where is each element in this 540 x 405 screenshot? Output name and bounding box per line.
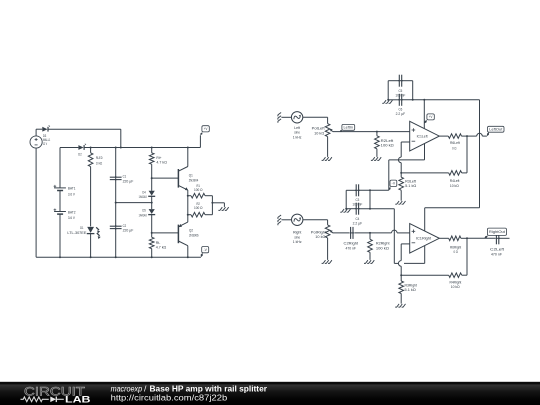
LED D1 LTL-307EE xyxy=(67,225,100,239)
resistor R4Right 10 kOhm (feedback) xyxy=(401,273,467,289)
node row B / riser xyxy=(369,208,371,210)
wire R1/R2 right join xyxy=(211,196,213,215)
svg-text:1 kHz: 1 kHz xyxy=(293,239,302,244)
diode D2 xyxy=(78,144,86,157)
svg-text:D2: D2 xyxy=(78,152,82,157)
diode D5 1N4148 xyxy=(139,208,156,218)
wire C5 loop right xyxy=(402,80,413,82)
node bottom C2 xyxy=(115,256,117,258)
node junction top-rail / +V rail xyxy=(120,147,122,149)
CircuitLab logo diode symbol xyxy=(50,397,56,403)
wire -V branch down (hops + input wire) xyxy=(393,209,395,264)
transistor Q1 2N3904 NPN xyxy=(178,148,198,196)
potentiometer PotLeft 10 kOhm xyxy=(312,124,334,157)
svg-text:3.6 V: 3.6 V xyxy=(68,215,75,220)
net flag LeftOut xyxy=(487,126,504,136)
svg-text:1N4148: 1N4148 xyxy=(139,212,147,217)
voltage source Right sine 1 kHz xyxy=(292,214,303,244)
wire +V rail to C1 xyxy=(115,148,117,178)
svg-text:10 kΩ: 10 kΩ xyxy=(450,183,459,188)
diode D4 1N4148 xyxy=(139,189,156,199)
wire PotLeft wiper to op-amp + input xyxy=(333,131,410,133)
node Q1 collector xyxy=(187,147,189,149)
ground (supply decoupling) xyxy=(382,100,392,103)
svg-text:220 µF: 220 µF xyxy=(123,178,134,183)
capacitor C6 2.2 uF (supply decoupling) xyxy=(396,94,406,116)
ground (C3/C4 decoupling) xyxy=(340,209,350,212)
wire riser row A to row B xyxy=(369,190,371,208)
battery BAT2 3.6 V xyxy=(54,209,76,221)
CircuitLab logo resistor symbol xyxy=(21,397,49,402)
wire IC1Left V- pin xyxy=(424,143,426,160)
wire RLED to D1 xyxy=(90,167,92,227)
svg-text:10 kΩ: 10 kΩ xyxy=(451,284,460,289)
svg-text:1 kHz: 1 kHz xyxy=(293,134,302,139)
net flag +V (rail splitter) xyxy=(200,126,209,136)
svg-text:0 Ω: 0 Ω xyxy=(452,145,456,150)
resistor R6Right 0 Ohm (output) xyxy=(439,236,467,254)
svg-text:100 Ω: 100 Ω xyxy=(194,187,203,192)
svg-text:100 kΩ: 100 kΩ xyxy=(381,142,394,147)
svg-text:BAT2: BAT2 xyxy=(68,209,76,214)
resistor R4Left 10 kOhm (feedback) xyxy=(401,171,467,188)
resistor R6Left 0 Ohm (output) xyxy=(439,134,467,151)
capacitor C5 100 nF (supply decoupling) xyxy=(395,75,405,98)
wire Q2 base xyxy=(152,232,179,234)
capacitor C1 220 uF xyxy=(110,174,134,184)
resistor R3Left 5.1 kOhm xyxy=(399,173,417,201)
svg-text:3.6 V: 3.6 V xyxy=(68,192,75,197)
capacitor C2Right 470 nF (input coupling) xyxy=(344,227,359,251)
wire V- down to -V flag corner xyxy=(388,160,390,190)
diode D3 xyxy=(42,125,50,138)
svg-text:220 µF: 220 µF xyxy=(123,228,134,233)
wire +V rail left segment xyxy=(388,99,399,101)
op-amp IC1Left xyxy=(410,121,440,151)
wire C2 to bottom rail xyxy=(115,229,117,257)
svg-text:10 kΩ: 10 kΩ xyxy=(96,160,102,165)
wire row B right xyxy=(359,208,395,210)
wire row A right to -V corner xyxy=(359,189,389,191)
svg-text:RLED: RLED xyxy=(96,155,103,160)
node feedback IC1Right xyxy=(400,274,402,276)
wire IC1Right V- pin xyxy=(424,246,426,264)
node +V rail / C5 right xyxy=(412,99,414,101)
net flag RightOut xyxy=(484,228,506,238)
svg-text:100 kΩ: 100 kΩ xyxy=(376,246,389,251)
node Rt+/D4/Q1 base xyxy=(151,177,153,179)
node bottom Rt- xyxy=(151,256,153,258)
voltage source Left sine 1 kHz xyxy=(291,112,302,140)
wire C2Left output stub xyxy=(499,237,510,239)
svg-text:2N3904: 2N3904 xyxy=(189,178,199,183)
node bottom Q2 xyxy=(187,256,189,258)
svg-text:D3: D3 xyxy=(43,133,47,138)
wire mid rail to C2 xyxy=(115,203,117,226)
wire +V rail to BAT1 xyxy=(59,148,61,188)
potentiometer PotRight 10 kOhm xyxy=(311,225,333,260)
svg-text:+V: +V xyxy=(204,127,208,131)
wire +V rail battery to D2 xyxy=(60,147,78,149)
svg-text:BAT1: BAT1 xyxy=(68,186,76,191)
node ground decoupling xyxy=(345,208,347,210)
svg-text:5.1 kΩ: 5.1 kΩ xyxy=(405,287,416,292)
wire mid rail (virtual ground) xyxy=(116,202,152,204)
svg-text:10 kΩ: 10 kΩ xyxy=(314,130,324,135)
node row A / riser xyxy=(369,189,371,191)
wire top rail D3 to corner xyxy=(48,128,120,130)
wire node to D4 xyxy=(151,178,153,191)
svg-text:100 nF: 100 nF xyxy=(395,93,405,98)
svg-text:0 Ω: 0 Ω xyxy=(453,249,457,254)
ground (R3Left) xyxy=(395,201,405,204)
node C1/C2 mid xyxy=(115,202,117,204)
wire IC1Left V+ pin xyxy=(423,100,425,129)
node RightOut xyxy=(466,237,468,239)
svg-text:100 nF: 100 nF xyxy=(352,202,362,207)
wire to chassis ground xyxy=(212,202,224,204)
wire output to C2Left xyxy=(467,237,495,239)
wire R4Right up to output xyxy=(466,238,468,275)
capacitor C2 220 uF xyxy=(110,223,134,233)
svg-text:2.2 µF: 2.2 µF xyxy=(353,220,363,225)
node R2 left xyxy=(187,214,189,216)
wire ground to Left source xyxy=(281,116,291,118)
wire BAT1 to BAT2 xyxy=(59,191,61,212)
wire R4Left up to output xyxy=(466,136,468,173)
capacitor C3 100 nF xyxy=(352,184,362,206)
wire D4 to mid rail xyxy=(151,197,153,203)
voltage source WALL1 12 V xyxy=(30,136,51,148)
wire WALL1 bottom to bottom rail xyxy=(35,148,37,257)
node R2Left top xyxy=(376,131,378,133)
svg-text:IC1Right: IC1Right xyxy=(416,236,432,241)
wire Left source to PotLeft xyxy=(303,116,328,118)
capacitor C2Left 470 nF (output coupling) xyxy=(490,232,505,256)
op-amp IC1Right xyxy=(410,224,440,254)
wire Q1 base xyxy=(152,177,179,179)
ground (Right source) xyxy=(278,215,281,225)
svg-text:10 kΩ: 10 kΩ xyxy=(315,234,325,239)
ground (Left source) xyxy=(278,113,281,123)
wire C1 to mid rail xyxy=(115,180,117,202)
wire - input down to feedback node (hops -V wire) xyxy=(400,244,402,261)
svg-text:2.2 µF: 2.2 µF xyxy=(396,111,406,116)
wire V- run left xyxy=(389,159,425,161)
wire top rail from WALL1 to D3 xyxy=(36,128,42,130)
wire row A left xyxy=(346,189,356,191)
svg-text:4.7 kΩ: 4.7 kΩ xyxy=(156,159,167,164)
wire D1 to bottom rail xyxy=(90,234,92,258)
node output to ground xyxy=(211,202,213,204)
ground (R3Right) xyxy=(395,304,405,307)
wire D5 to Rt- node xyxy=(151,215,153,233)
node LeftOut xyxy=(466,135,468,137)
resistor RLED 10 kOhm xyxy=(88,148,102,167)
node +V rail / C5 left / ground xyxy=(387,99,389,101)
node Q1 emitter / R1 xyxy=(187,195,189,197)
svg-text:470 nF: 470 nF xyxy=(491,251,503,256)
svg-text:RightOut: RightOut xyxy=(489,230,505,234)
wire riser to +V flag xyxy=(199,135,201,147)
node +V rail / IC1Left V+ xyxy=(423,99,425,101)
resistor R1 100 Ohm xyxy=(188,183,213,198)
ground (R2Left) xyxy=(371,157,381,160)
svg-text:5.1 kΩ: 5.1 kΩ xyxy=(405,183,416,188)
wire row A left corner down xyxy=(345,190,347,208)
ground (R2Right) xyxy=(364,260,374,263)
transistor Q2 2N3906 PNP xyxy=(178,215,199,258)
node bottom D1 xyxy=(90,256,92,258)
wire BAT2 to bottom rail xyxy=(59,214,61,257)
svg-text:http://circuitlab.com/c87j22b: http://circuitlab.com/c87j22b xyxy=(111,393,228,403)
net flag -V (IC1Left supply) xyxy=(389,180,397,190)
svg-text:1N4148: 1N4148 xyxy=(139,194,147,199)
wire C5 loop left xyxy=(388,80,399,82)
wire +V rail right segment xyxy=(402,99,480,101)
wire row B left xyxy=(346,208,356,210)
svg-text:100 Ω: 100 Ω xyxy=(194,205,203,210)
svg-text:12 V: 12 V xyxy=(43,141,47,146)
battery BAT1 3.6 V xyxy=(54,185,76,197)
ground (PotRight) xyxy=(322,260,332,263)
svg-text:LTL-307EE: LTL-307EE xyxy=(67,230,86,235)
node D5/Rt-/Q2 base xyxy=(151,232,153,234)
svg-text:LeftOut: LeftOut xyxy=(489,128,502,132)
wire C2Right to op-amp + input (hops -V branch) xyxy=(355,232,392,234)
resistor Rt- 4.7 kOhm xyxy=(149,233,166,257)
node RLED top xyxy=(90,147,92,149)
node Rt+ top xyxy=(151,147,153,149)
wire bottom rail xyxy=(36,256,201,258)
resistor R3Right 5.1 kOhm xyxy=(399,275,418,303)
wire output to LeftOut flag (hops +V wire) xyxy=(467,135,477,137)
wire mid rail to D5 xyxy=(151,203,153,210)
wire -V run to IC1Right V- (hops - input wire) xyxy=(394,262,398,264)
wire top rail corner down to +V rail xyxy=(120,129,122,147)
wire +V distribution to IC1Right xyxy=(479,100,481,208)
ground (PotLeft) xyxy=(322,157,332,160)
svg-text:LeftIn: LeftIn xyxy=(344,126,354,130)
net flag +V (IC1Left supply) xyxy=(424,114,434,124)
svg-text:4.7 kΩ: 4.7 kΩ xyxy=(156,245,167,250)
svg-text:LAB: LAB xyxy=(65,395,91,405)
wire IC1Left - input xyxy=(401,141,410,143)
wire +V rail D2 to +V flag corner xyxy=(85,147,201,149)
svg-text:470 nF: 470 nF xyxy=(345,246,356,251)
wire WALL1 top to top rail xyxy=(35,129,37,136)
wire emitter column xyxy=(187,196,189,215)
svg-text:2N3906: 2N3906 xyxy=(189,232,199,237)
wire - input down to feedback node (hops -V wire) xyxy=(400,142,402,157)
resistor R2Right 100 kOhm xyxy=(368,233,391,260)
capacitor C4 2.2 uF xyxy=(353,203,363,226)
wire PotRight wiper to C2Right xyxy=(333,232,349,234)
resistor Rt+ 4.7 kOhm xyxy=(149,148,167,179)
svg-text:IC1Left: IC1Left xyxy=(417,133,429,138)
wire Right source to PotRight xyxy=(303,219,328,221)
node D4/D5 mid xyxy=(151,202,153,204)
resistor R2Left 100 kOhm xyxy=(375,132,395,157)
node bottom battery xyxy=(59,256,61,258)
wire IC1Right - input xyxy=(401,243,410,245)
net flag -V (rail splitter) xyxy=(201,247,209,258)
resistor R2 100 Ohm xyxy=(188,201,213,217)
node feedback IC1Left xyxy=(400,172,402,174)
node R2Right top xyxy=(369,232,371,234)
svg-text:+V: +V xyxy=(429,115,433,119)
wire ground to Right source xyxy=(281,219,291,221)
net flag LeftIn xyxy=(340,124,355,131)
node C1 top xyxy=(115,147,117,149)
ground (output) xyxy=(218,207,228,210)
